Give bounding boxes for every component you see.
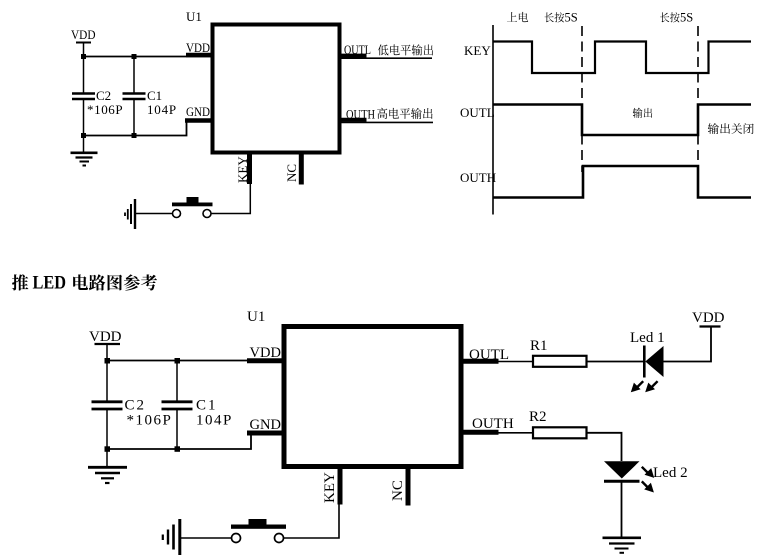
pin OUTH stub (bottom circuit right)	[463, 416, 514, 432]
axis vertical line	[492, 25, 494, 215]
svg-text:C1: C1	[147, 88, 162, 103]
svg-text:VDD: VDD	[71, 27, 96, 42]
svg-text:C1: C1	[196, 398, 218, 414]
pin NC stub (bottom)	[284, 154, 301, 185]
label 输出关闭	[708, 123, 719, 134]
svg-text:OUTL: OUTL	[460, 105, 495, 120]
svg-text:Led 2: Led 2	[653, 465, 688, 481]
svg-text:KEY: KEY	[322, 472, 338, 503]
capacitor C2	[72, 57, 123, 137]
op IC U1 (bottom circuit body)	[247, 309, 461, 467]
node junction bottom C1 (bottom circuit)	[175, 446, 181, 452]
svg-text:OUTH: OUTH	[460, 170, 496, 185]
ground (below C2, bottom circuit)	[88, 449, 127, 483]
svg-text:LED: LED	[33, 273, 67, 294]
push button SW2 (bottom circuit)	[231, 519, 286, 543]
Led2 emission arrow 2	[642, 481, 654, 492]
node junction C1 top (bottom circuit)	[175, 358, 181, 364]
svg-text:*106P: *106P	[87, 102, 123, 117]
Led1 emission arrow 2	[645, 381, 657, 392]
Led1 emission arrow 1	[631, 381, 643, 392]
pin KEY stub (bottom)	[235, 154, 250, 184]
label 上电	[507, 12, 517, 22]
pin KEY stub (bottom circuit)	[322, 469, 340, 505]
label 输出	[633, 108, 643, 118]
pin VDD stub (bottom circuit left)	[247, 345, 282, 361]
svg-text:OUTL: OUTL	[344, 42, 371, 57]
ground (rotated, left of switch SW2)	[163, 519, 180, 555]
svg-text:GND: GND	[186, 104, 210, 119]
capacitor C1 (bottom circuit)	[162, 361, 233, 450]
wire Led1 to VDD	[663, 327, 711, 362]
svg-text:U1: U1	[186, 9, 202, 24]
svg-text:VDD: VDD	[186, 40, 210, 55]
node junction bottom C2	[81, 133, 86, 138]
Led2 emission arrow 1	[642, 467, 654, 478]
node junction C2 top (bottom circuit)	[105, 358, 111, 364]
ground (below C2)	[71, 136, 98, 166]
node junction at C1 top	[132, 54, 137, 59]
power VDD symbol (bottom circuit left)	[89, 329, 122, 361]
OUTL waveform	[493, 105, 751, 136]
svg-text:VDD: VDD	[89, 329, 122, 345]
ground (rotated, left of switch)	[125, 199, 135, 229]
wire VDD rail to U1 VDD pin	[84, 56, 212, 58]
pin OUTH stub and wire (right)	[341, 107, 433, 123]
svg-text:OUTH: OUTH	[472, 416, 514, 432]
label 长按5S (second)	[660, 12, 669, 22]
svg-text:OUTL: OUTL	[469, 347, 509, 363]
pin OUTL stub (bottom circuit right)	[463, 347, 509, 363]
resistor R1	[530, 338, 587, 367]
svg-text:OUTH: OUTH	[346, 107, 375, 122]
svg-text:U1: U1	[247, 309, 265, 325]
wire OUTL to R1	[498, 361, 533, 363]
push button SW1 (top circuit)	[172, 197, 213, 218]
svg-text:VDD: VDD	[250, 345, 282, 361]
wire switch to ground	[135, 213, 173, 215]
pin NC stub (bottom circuit)	[390, 469, 408, 506]
svg-text:Led 1: Led 1	[630, 330, 665, 346]
LED Led2	[604, 461, 688, 481]
wire KEY pin to switch	[212, 184, 251, 214]
svg-text:R2: R2	[529, 409, 547, 425]
ground (below Led2)	[603, 538, 642, 553]
resistor R2	[529, 409, 587, 438]
dashed marker line 1	[581, 26, 583, 172]
node junction bottom C1	[132, 133, 137, 138]
pin GND stub (bottom circuit left)	[247, 417, 282, 433]
capacitor C2 (bottom circuit)	[92, 361, 173, 450]
svg-text:104P: 104P	[147, 102, 177, 117]
pin OUTL stub and wire (right)	[341, 42, 433, 58]
svg-text:C2: C2	[96, 88, 111, 103]
OUTH waveform	[493, 166, 751, 198]
wire bottom rail to U1 GND pin	[84, 121, 212, 136]
title text 推 LED 电路图参考	[12, 274, 29, 290]
svg-text:VDD: VDD	[692, 310, 725, 326]
power VDD symbol (top circuit)	[71, 27, 96, 57]
capacitor C1	[123, 57, 177, 137]
svg-text:KEY: KEY	[235, 156, 250, 183]
svg-text:KEY: KEY	[464, 43, 491, 58]
power VDD symbol (bottom circuit right)	[692, 310, 725, 327]
svg-text:5S: 5S	[680, 11, 693, 25]
node junction bottom C2 (bottom circuit)	[105, 446, 111, 452]
pin GND stub (left)	[185, 104, 211, 121]
svg-text:NC: NC	[284, 164, 299, 182]
node junction at C2 top	[81, 54, 86, 59]
svg-text:104P: 104P	[196, 413, 233, 429]
svg-text:GND: GND	[250, 417, 282, 433]
dashed marker line 2	[697, 26, 699, 172]
wire Led2 to ground	[621, 481, 623, 537]
svg-text:R1: R1	[530, 338, 548, 354]
KEY waveform	[493, 42, 751, 74]
svg-text:C2: C2	[125, 398, 147, 414]
label 长按5S (first)	[545, 12, 554, 22]
wire bottom rail to U1 GND pin (bottom circuit)	[107, 433, 283, 449]
wire OUTH to R2	[498, 432, 533, 434]
wire R2 to Led2	[587, 433, 622, 461]
wire switch to ground (bottom circuit)	[180, 537, 232, 539]
LED Led1	[630, 330, 665, 378]
wire KEY pin to switch (bottom circuit)	[284, 504, 339, 538]
svg-text:NC: NC	[390, 480, 406, 501]
svg-text:5S: 5S	[565, 11, 578, 25]
pin VDD stub (left)	[186, 40, 211, 55]
svg-text:*106P: *106P	[127, 413, 173, 429]
wire VDD rail to U1 VDD pin (bottom circuit)	[107, 360, 283, 362]
op IC U1 (top circuit body)	[186, 9, 340, 153]
wire R1 to Led1	[587, 361, 645, 363]
